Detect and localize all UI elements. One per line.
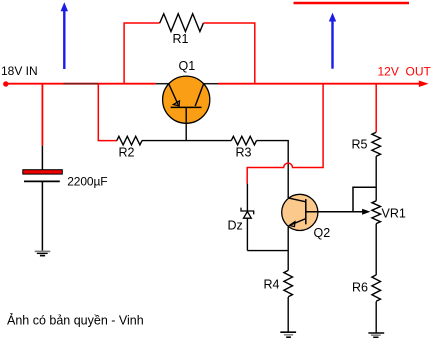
wire: R1 right leg (red) — [203, 23, 254, 84]
svg-text:Q2: Q2 — [314, 226, 331, 240]
wire: Q2 emitter down to junction / R4 top lead — [287, 227, 289, 271]
wire: capacitor lead to ground — [41, 181, 43, 250]
svg-text:R5: R5 — [352, 138, 368, 152]
ground (R4) — [280, 332, 296, 337]
svg-text:18V IN: 18V IN — [1, 64, 38, 78]
svg-text:2200µF: 2200µF — [67, 174, 107, 188]
svg-text:12V OUT: 12V OUT — [378, 65, 431, 79]
capacitor C1 top plate — [23, 170, 63, 174]
svg-text:R3: R3 — [236, 146, 252, 160]
svg-text:R1: R1 — [173, 32, 189, 46]
resistor R3 — [231, 136, 256, 145]
blue arrow (output side) — [329, 13, 336, 69]
wire: Q2 base to VR1 wiper with arrow — [306, 209, 371, 215]
wire: Q1 emitter stub (black) — [156, 83, 170, 85]
wire: R1 left leg (red) — [124, 23, 160, 84]
svg-text:Ảnh có bản quyền - Vinh: Ảnh có bản quyền - Vinh — [7, 313, 144, 328]
wire: Dz to R4 junction — [247, 250, 288, 252]
svg-text:VR1: VR1 — [382, 207, 406, 221]
wire: drop to capacitor (black lower part) — [41, 146, 43, 170]
wire: R6 to ground — [375, 302, 377, 334]
svg-text:Dz: Dz — [228, 219, 243, 233]
wire: Q1 collector stub (black) — [203, 83, 218, 85]
capacitor C1 bottom plate — [24, 180, 60, 182]
svg-text:R6: R6 — [352, 281, 368, 295]
wire: input rail (red) — [6, 83, 156, 85]
wire: input rail dark overlay segment — [64, 83, 99, 85]
wire: output rail to zener branch (red, hops over Q2 collector line) — [247, 84, 323, 184]
potentiometer VR1 — [372, 201, 381, 224]
wire: zener top lead (black) — [246, 184, 248, 211]
blue arrow (input side) — [61, 2, 68, 69]
ground (capacitor) — [35, 251, 51, 255]
transistor Q1 — [163, 76, 210, 123]
resistor R6 — [372, 275, 381, 301]
svg-text:R4: R4 — [264, 278, 280, 292]
svg-text:Q1: Q1 — [179, 59, 196, 73]
wire: Q1 base — [185, 123, 187, 141]
wire: drop to capacitor (red upper part) — [41, 84, 43, 146]
wire: branch to R2 (red) — [98, 84, 117, 141]
wire: R3 to Q2 collector — [256, 141, 288, 198]
wire: R4 to ground — [287, 297, 289, 332]
node: input terminal dot — [3, 81, 8, 86]
wire: R2 to R3 — [142, 140, 231, 142]
transistor Q2 — [282, 194, 318, 230]
resistor R5 — [372, 132, 381, 156]
resistor R1 — [160, 14, 204, 32]
wire: output rail (red) with arrow — [218, 81, 429, 88]
resistor R4 — [284, 270, 293, 296]
wire: VR1 to R6 — [375, 224, 377, 275]
wire: R5 bottom to VR1 top — [375, 156, 377, 201]
top red bar — [294, 2, 410, 5]
wire: output rail down to R5 (red) — [375, 84, 377, 133]
wire: R5/VR1 junction to wiper (L shape) — [353, 187, 376, 212]
wire: zener bottom lead — [246, 218, 248, 250]
ground (R6) — [368, 333, 384, 337]
resistor R2 — [117, 136, 142, 145]
zener diode Dz — [241, 208, 254, 219]
svg-text:R2: R2 — [119, 146, 135, 160]
